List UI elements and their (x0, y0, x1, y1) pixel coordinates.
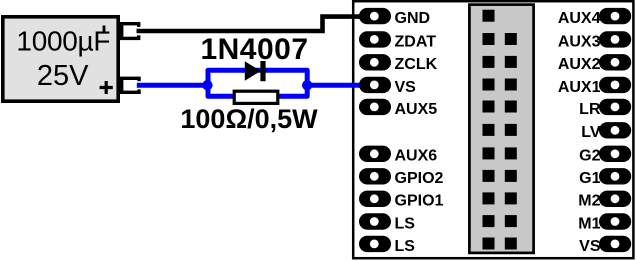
svg-text:AUX1: AUX1 (558, 79, 601, 96)
svg-text:ZCLK: ZCLK (395, 56, 438, 73)
svg-text:ZDAT: ZDAT (395, 33, 437, 50)
svg-text:LS: LS (395, 215, 416, 232)
svg-text:GPIO1: GPIO1 (395, 193, 444, 210)
svg-text:VS: VS (579, 238, 601, 255)
svg-text:VS: VS (395, 79, 417, 96)
svg-text:AUX5: AUX5 (395, 101, 438, 118)
svg-text:LS: LS (395, 238, 416, 255)
svg-text:AUX6: AUX6 (395, 148, 438, 165)
svg-text:LR: LR (579, 101, 601, 118)
svg-text:GND: GND (395, 10, 431, 27)
svg-text:AUX3: AUX3 (558, 33, 601, 50)
svg-text:G1: G1 (579, 170, 600, 187)
svg-text:1N4007: 1N4007 (200, 33, 308, 66)
svg-text:LV: LV (581, 124, 601, 141)
svg-text:GPIO2: GPIO2 (395, 170, 444, 187)
svg-text:100Ω/0,5W: 100Ω/0,5W (180, 104, 318, 134)
svg-text:M1: M1 (578, 215, 600, 232)
svg-text:25V: 25V (37, 60, 89, 92)
svg-text:G2: G2 (579, 148, 600, 165)
svg-text:1000µF: 1000µF (16, 25, 110, 56)
svg-text:M2: M2 (578, 193, 600, 210)
svg-text:AUX2: AUX2 (558, 56, 601, 73)
svg-text:AUX4: AUX4 (558, 10, 601, 27)
